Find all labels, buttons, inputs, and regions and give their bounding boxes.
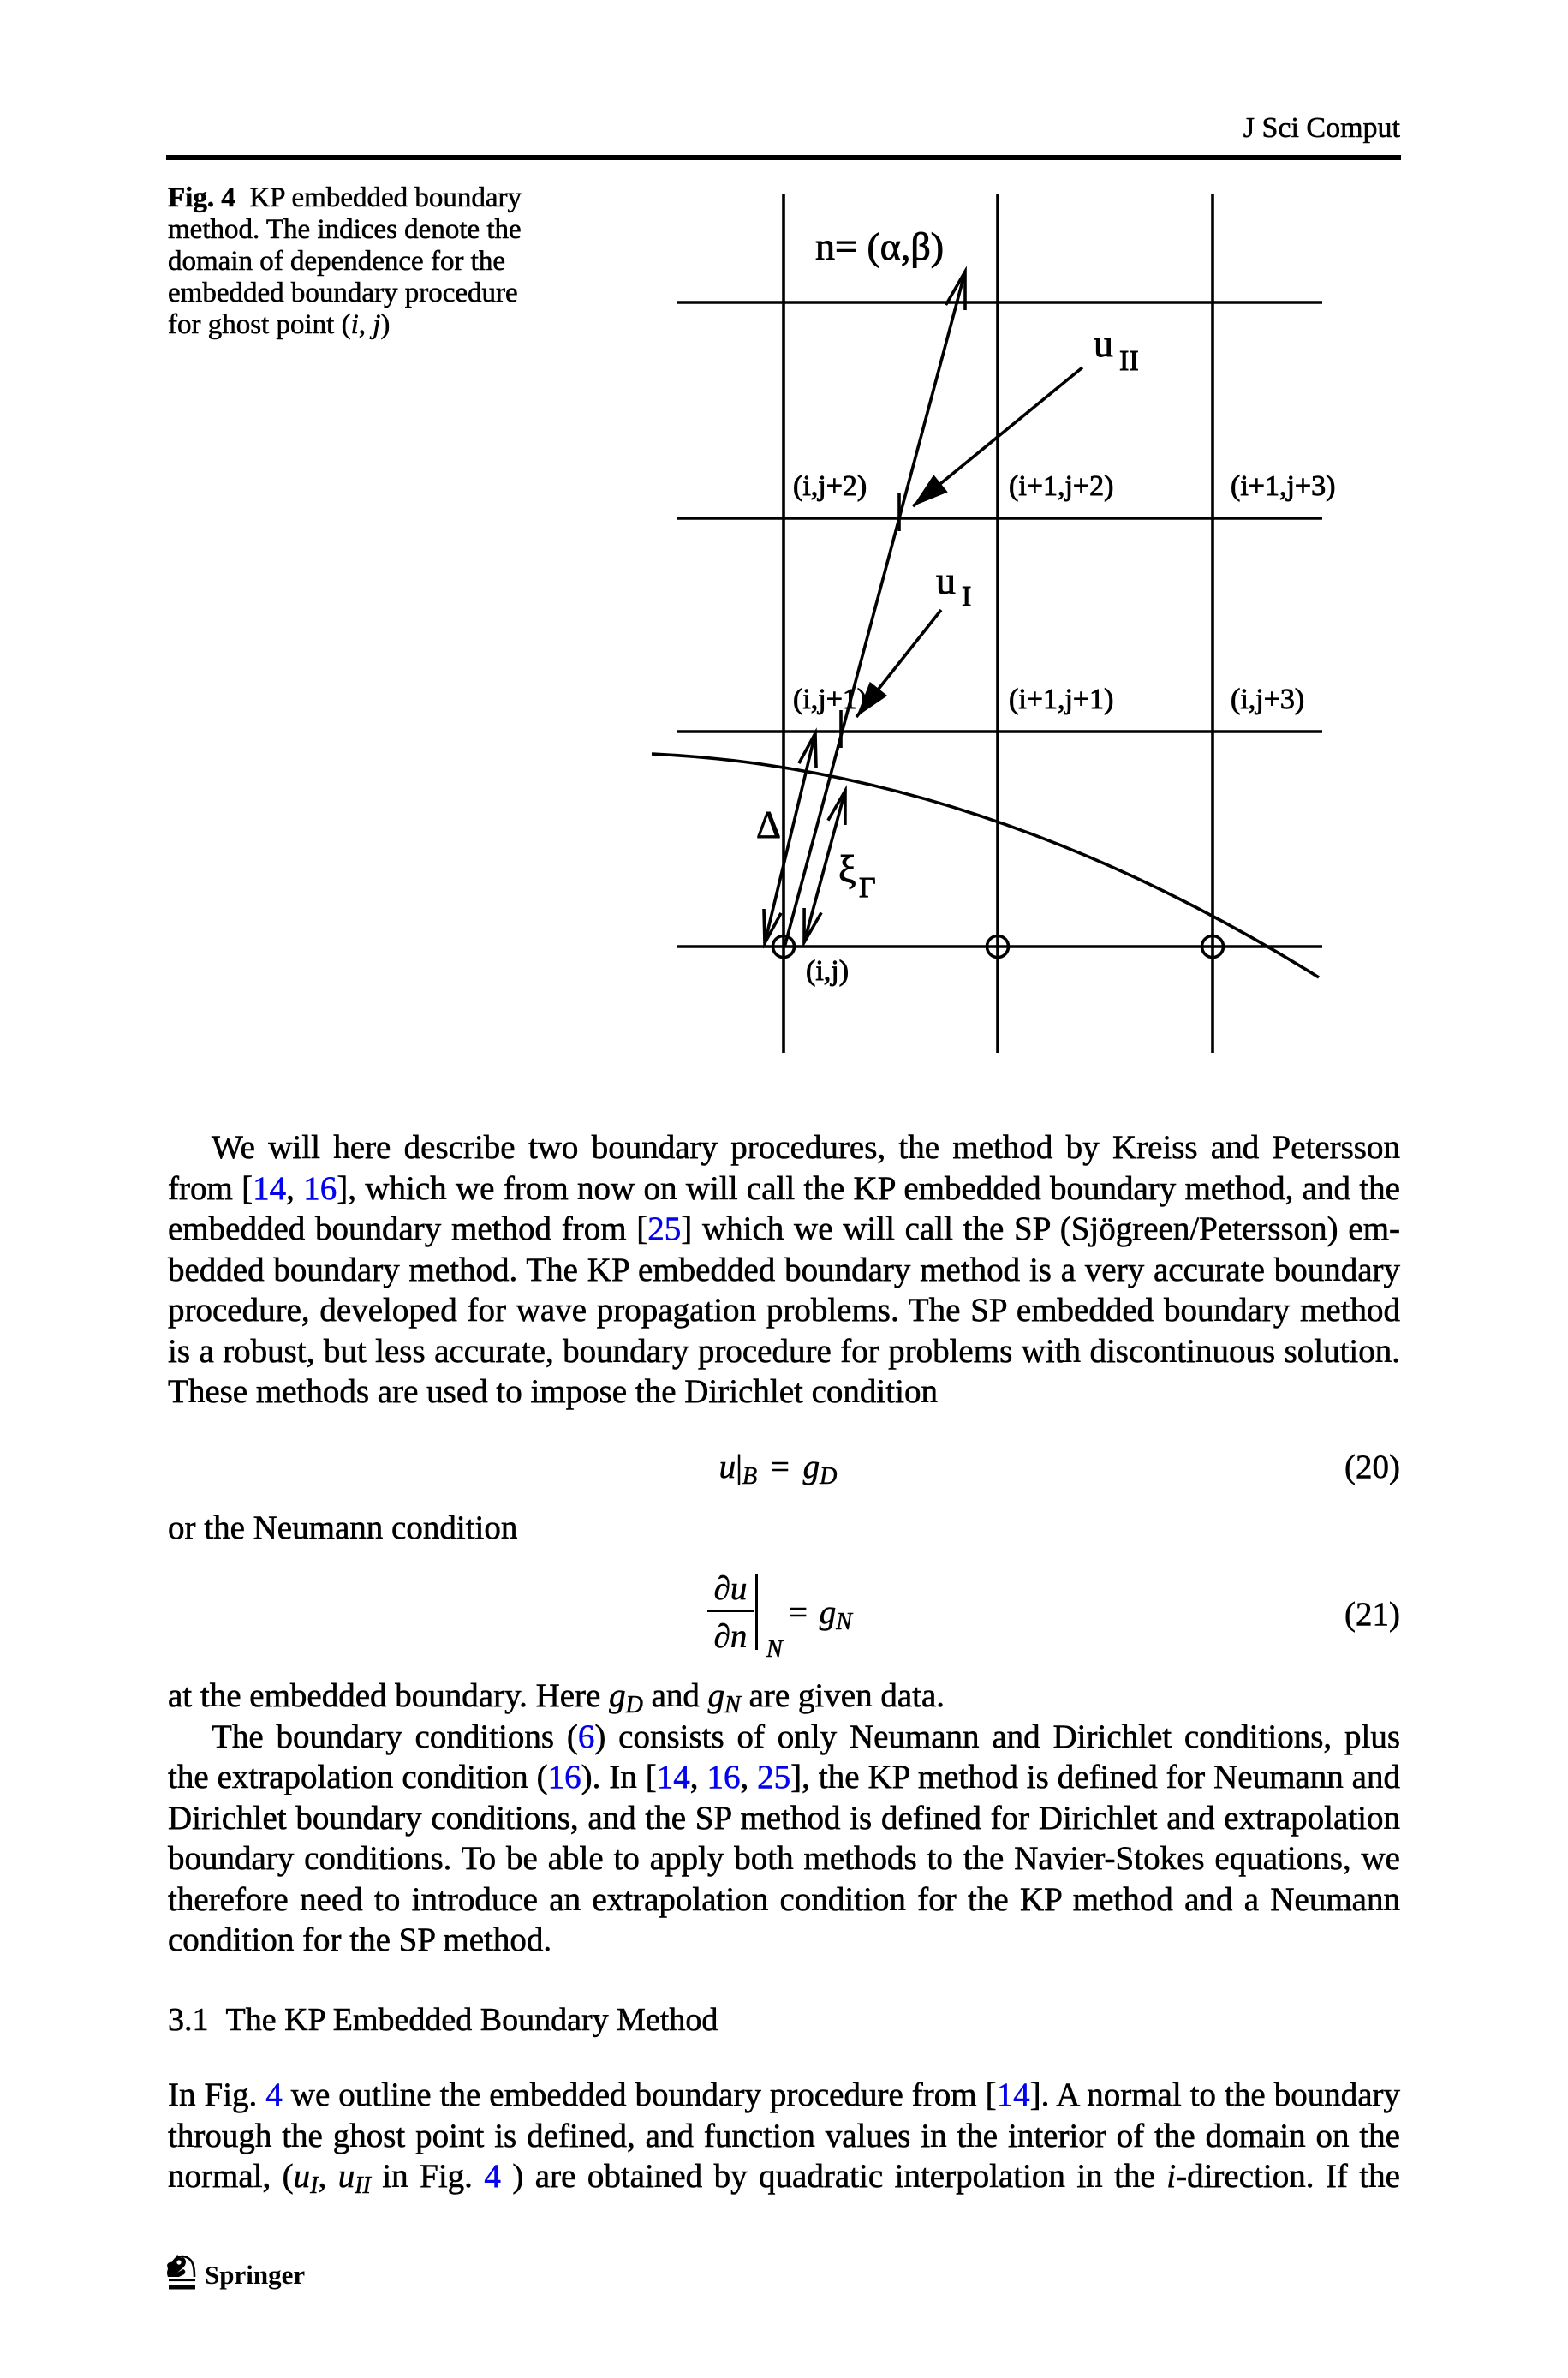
grid horizontal line j+2 <box>677 517 1322 520</box>
section heading 3.1 <box>168 2000 718 2041</box>
delta arrow top head <box>799 733 816 768</box>
xi double arrow line <box>804 791 845 942</box>
grid vertical line i+1 <box>996 194 999 1053</box>
springer footer <box>166 2252 197 2291</box>
svg-text:Δ: Δ <box>756 804 781 846</box>
ghost point circle (i,j) <box>773 936 795 958</box>
tick at u_I interpolation point <box>839 710 843 748</box>
u_II arrowhead <box>913 475 948 506</box>
svg-text:ξ: ξ <box>838 847 856 891</box>
u_I arrowhead <box>856 682 887 717</box>
svg-text:(i,j+3): (i,j+3) <box>1231 684 1304 715</box>
normal line from ghost point <box>784 272 965 947</box>
equation 21 <box>707 1569 754 1608</box>
paragraph: at the embedded boundary + boundary conditions <box>168 1676 1400 1961</box>
xi arrow bottom head <box>804 908 821 942</box>
grid horizontal line j+1 <box>677 730 1322 733</box>
tick at u_II interpolation point <box>897 493 901 531</box>
boundary point circle (i+2,j) <box>1202 936 1224 958</box>
or the Neumann condition <box>168 1508 1400 1549</box>
xi arrow top head <box>828 791 845 825</box>
paragraph 1 <box>168 1127 1400 1413</box>
svg-text:(i,j): (i,j) <box>806 955 849 987</box>
header: journal name <box>168 112 1400 145</box>
springer knight logo <box>170 2256 194 2277</box>
svg-text:(i,j+1): (i,j+1) <box>793 684 867 715</box>
header rule <box>166 155 1401 160</box>
svg-text:(i+1,j+2): (i+1,j+2) <box>1009 470 1113 502</box>
normal arrowhead <box>946 272 966 310</box>
svg-text:(i+1,j+1): (i+1,j+1) <box>1009 684 1113 715</box>
delta double arrow line <box>765 733 815 943</box>
boundary curve <box>652 754 1319 977</box>
svg-text:Γ: Γ <box>859 872 876 904</box>
svg-text:u: u <box>1094 321 1113 365</box>
svg-text:(i,j+2): (i,j+2) <box>793 470 867 502</box>
figure caption <box>168 182 570 341</box>
grid vertical line i <box>782 194 785 1053</box>
u_II pointer line <box>913 367 1082 506</box>
svg-text:I: I <box>962 581 971 612</box>
paragraph 3 <box>168 2075 1400 2197</box>
u_I pointer line <box>856 610 941 717</box>
boundary point circle (i+1,j) <box>987 936 1009 958</box>
svg-text:u: u <box>936 559 956 602</box>
equation 20 <box>162 1447 1394 1488</box>
svg-text:II: II <box>1119 345 1139 377</box>
grid horizontal line j <box>677 945 1322 948</box>
svg-text:(i+1,j+3): (i+1,j+3) <box>1231 470 1335 502</box>
svg-text:n= (α,β): n= (α,β) <box>815 224 944 268</box>
delta arrow bottom head <box>764 909 781 943</box>
grid vertical line i+2 <box>1211 194 1214 1053</box>
grid horizontal line j+3 <box>677 301 1322 304</box>
